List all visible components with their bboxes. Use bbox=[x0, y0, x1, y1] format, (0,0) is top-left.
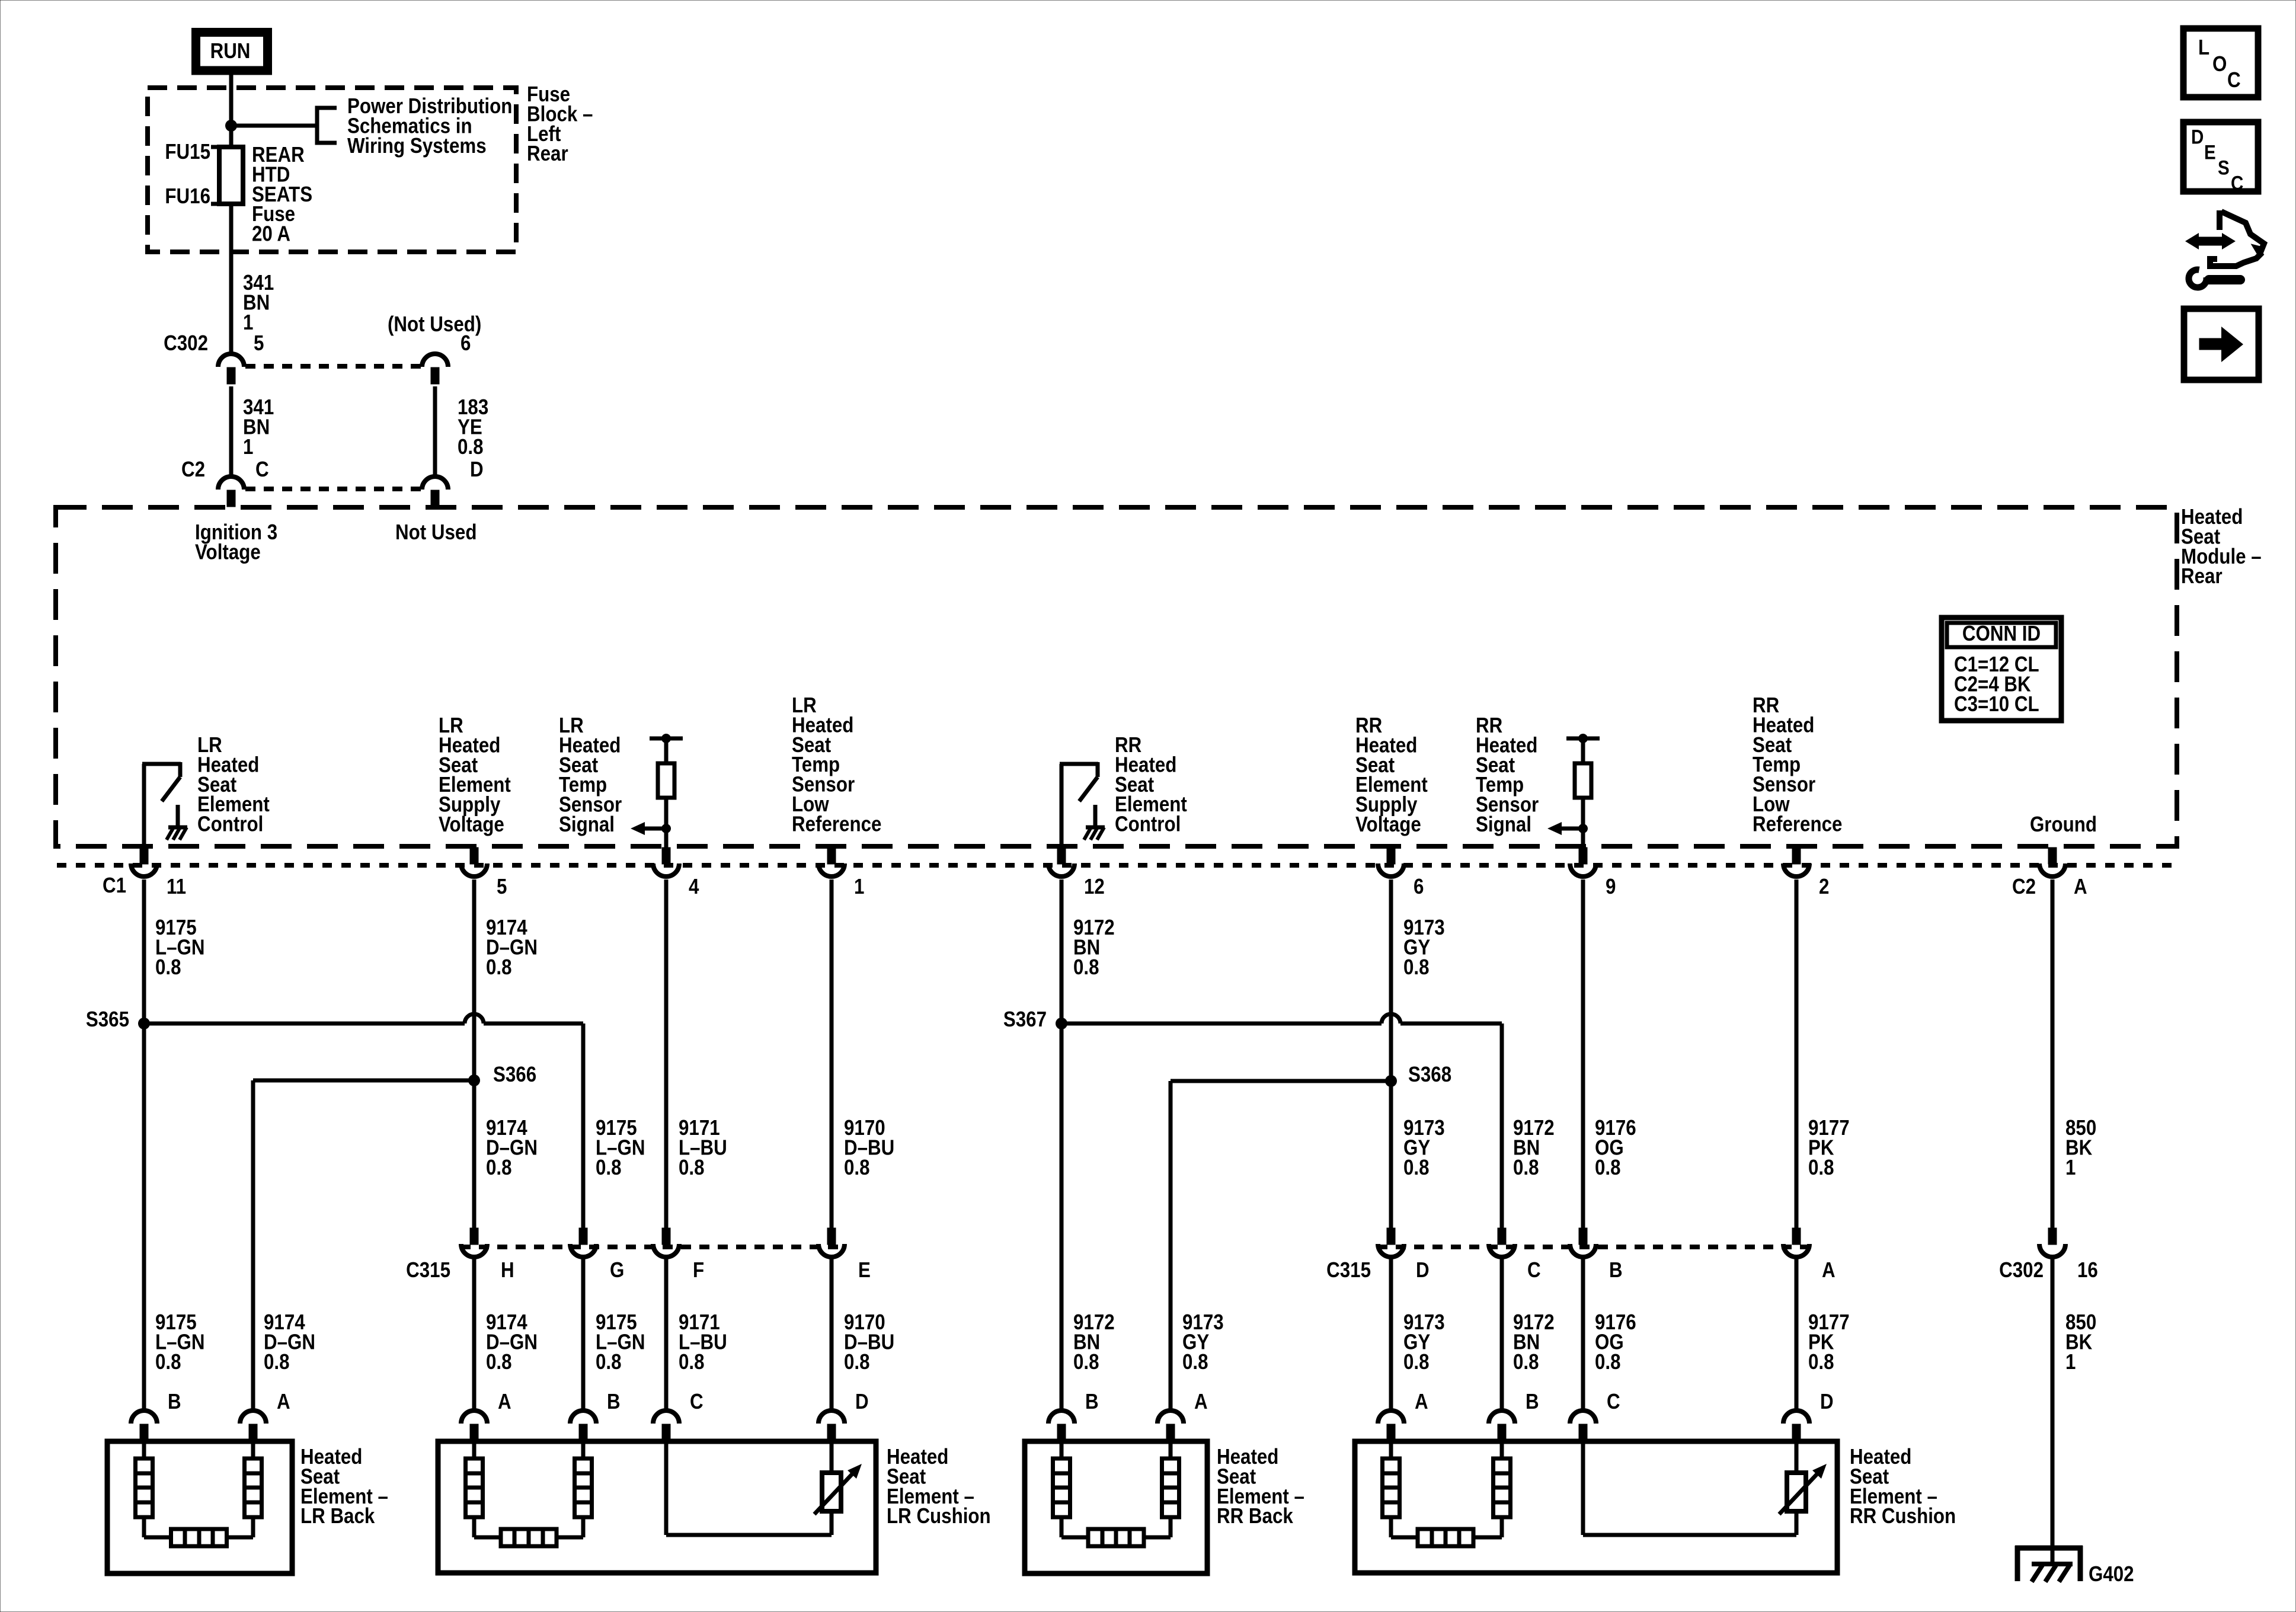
value label 9174 D-GN 0.8 (LR Back A) bbox=[264, 1310, 315, 1374]
label Heated Seat Element - RR Back bbox=[1217, 1445, 1304, 1528]
element pin letter B at x=283 bbox=[168, 1390, 181, 1414]
label C302 (ground run) bbox=[1999, 1258, 2044, 1282]
connector C315 pin E bbox=[818, 1228, 845, 1257]
svg-text:Rear: Rear bbox=[2181, 564, 2223, 588]
value label 9172 BN 0.8 (S367 branch) bbox=[1513, 1116, 1555, 1179]
svg-text:B: B bbox=[1609, 1258, 1623, 1282]
module connector C1/C2 pin 2 bbox=[1783, 847, 1809, 877]
pin letter F bbox=[693, 1258, 704, 1282]
svg-text:0.8: 0.8 bbox=[596, 1350, 622, 1374]
element pin letter A at x=467 bbox=[277, 1390, 290, 1414]
connector C2 dashed tie line bbox=[245, 487, 421, 491]
wire to Power Distribution reference bracket bbox=[231, 124, 317, 128]
svg-text:CONN ID: CONN ID bbox=[1962, 622, 2041, 646]
label G402 bbox=[2089, 1562, 2134, 1587]
value label 9172 BN 0.8 (RR Back B) bbox=[1073, 1310, 1115, 1374]
svg-text:C315: C315 bbox=[1326, 1258, 1371, 1282]
element connector pin at x=2347 bbox=[1378, 1410, 1404, 1441]
connector C315 pin B bbox=[1570, 1228, 1596, 1257]
svg-text:O: O bbox=[2212, 52, 2227, 76]
wire hop over pin 6 wire bbox=[1382, 1014, 1400, 1024]
svg-text:C3=10 CL: C3=10 CL bbox=[1954, 692, 2039, 717]
value label 9171 L-BU 0.8 (LR Cushion C) bbox=[679, 1310, 727, 1374]
label Fuse Block - Left Rear bbox=[527, 82, 593, 166]
svg-text:1: 1 bbox=[243, 311, 253, 335]
svg-text:B: B bbox=[1085, 1390, 1099, 1414]
svg-text:B: B bbox=[607, 1390, 621, 1414]
switch RR heated seat element control (inside module) bbox=[1060, 762, 1105, 846]
wire from C315 down at x=984 bbox=[581, 1258, 586, 1410]
value label 9170 D-BU 0.8 bbox=[844, 1116, 894, 1179]
value label 9175 L-GN 0.8 (pin 11) bbox=[155, 916, 205, 979]
element pin letter B at x=2574 bbox=[1526, 1390, 1539, 1414]
temp sensor pull-up resistor RR (inside module) bbox=[1547, 734, 1600, 847]
value label 9172 BN 0.8 (pin 12) bbox=[1073, 916, 1115, 979]
svg-text:G402: G402 bbox=[2089, 1562, 2134, 1587]
svg-text:C: C bbox=[690, 1390, 703, 1414]
svg-text:2: 2 bbox=[1819, 875, 1829, 899]
svg-text:Control: Control bbox=[197, 813, 263, 837]
pin number 12 bbox=[1084, 875, 1105, 899]
value label 9173 GY 0.8 (pin 6) bbox=[1403, 916, 1445, 979]
pin letter C bbox=[1527, 1258, 1541, 1282]
label C2 bbox=[181, 458, 205, 482]
label C315 (right) bbox=[1326, 1258, 1371, 1282]
svg-text:0.8: 0.8 bbox=[458, 435, 484, 459]
svg-text:S365: S365 bbox=[86, 1007, 129, 1032]
label C302 bbox=[164, 331, 208, 356]
svg-text:Rear: Rear bbox=[527, 142, 568, 166]
element pin letter B at x=1831 bbox=[1085, 1390, 1099, 1414]
label REAR HTD SEATS Fuse 20 A bbox=[252, 143, 312, 246]
value label 341 BN 1 (circuit below C302) bbox=[243, 395, 274, 459]
module box Heated Seat Module - Rear (dashed) bbox=[56, 507, 2177, 846]
svg-text:A: A bbox=[2074, 875, 2087, 899]
svg-text:FU16: FU16 bbox=[165, 184, 210, 209]
value label 9177 PK 0.8 bbox=[1808, 1116, 1850, 1179]
value label 9173 GY 0.8 (RR Cushion A) bbox=[1403, 1310, 1445, 1374]
label Not Used bbox=[395, 520, 477, 545]
icon DESC box bbox=[2183, 122, 2258, 194]
svg-text:B: B bbox=[1526, 1390, 1539, 1414]
element connector pin at x=800 bbox=[461, 1410, 487, 1441]
svg-text:1: 1 bbox=[2065, 1350, 2076, 1374]
connector C315 pin D bbox=[1378, 1228, 1404, 1257]
svg-text:RR Back: RR Back bbox=[1217, 1504, 1293, 1528]
label LR Heated Seat Element Control bbox=[197, 733, 270, 836]
label S366 bbox=[493, 1063, 536, 1087]
value label 9175 L-GN 0.8 (LR Back B) bbox=[155, 1310, 205, 1374]
svg-text:5: 5 bbox=[497, 875, 507, 899]
pin number 11 bbox=[167, 875, 186, 899]
svg-text:1: 1 bbox=[243, 435, 253, 459]
svg-text:S: S bbox=[2218, 156, 2230, 179]
svg-text:Reference: Reference bbox=[792, 812, 881, 836]
pin letter C at C2 bbox=[255, 458, 269, 482]
label RR Heated Seat Element Control bbox=[1115, 733, 1187, 836]
wire from C315 down at x=1403 bbox=[830, 1258, 834, 1410]
value label 9171 L-BU 0.8 bbox=[679, 1116, 727, 1179]
power node RUN (ignition switch position) bbox=[196, 33, 268, 71]
value label 850 BK 1 (above G402) bbox=[2065, 1310, 2096, 1374]
value label 9173 GY 0.8 (below S368) bbox=[1403, 1116, 1445, 1179]
switch LR heated seat element control (inside module) bbox=[142, 762, 187, 846]
svg-text:C: C bbox=[2231, 172, 2243, 194]
svg-text:C: C bbox=[1527, 1258, 1541, 1282]
label Ground (module pin) bbox=[2030, 813, 2097, 837]
svg-text:RR Cushion: RR Cushion bbox=[1850, 1504, 1956, 1528]
connector C302 dashed tie line bbox=[245, 364, 421, 369]
svg-text:0.8: 0.8 bbox=[844, 1156, 870, 1180]
wire 9176 OG pin9 to C315 B bbox=[1581, 879, 1585, 1229]
wire 9175 L-GN pin11 to S365 to LR Back pin B bbox=[142, 879, 146, 1410]
svg-text:C302: C302 bbox=[1999, 1258, 2044, 1282]
value label 341 BN 1 (circuit above C302) bbox=[243, 271, 274, 334]
connector C315 right dashed tie line bbox=[1377, 1245, 1810, 1249]
svg-text:0.8: 0.8 bbox=[1513, 1156, 1539, 1180]
svg-text:LR Cushion: LR Cushion bbox=[887, 1504, 991, 1528]
element connector pin at x=2671 bbox=[1570, 1410, 1596, 1441]
label Heated Seat Element - LR Back bbox=[300, 1445, 388, 1528]
junction node on fuse feed wire bbox=[225, 120, 237, 132]
wire from C315 down at x=2347 bbox=[1389, 1258, 1393, 1410]
label S368 bbox=[1408, 1063, 1451, 1087]
value label 9176 OG 0.8 (RR Cushion C) bbox=[1595, 1310, 1636, 1374]
module connector C1/C2 pin 4 bbox=[653, 847, 679, 877]
label Ignition 3 Voltage bbox=[195, 520, 277, 564]
svg-text:0.8: 0.8 bbox=[1073, 1350, 1099, 1374]
junction S366 bbox=[468, 1074, 480, 1086]
pin letter A bbox=[2074, 875, 2087, 899]
element pin letter D at x=1443 bbox=[855, 1390, 869, 1414]
svg-text:Control: Control bbox=[1115, 813, 1181, 837]
svg-text:A: A bbox=[1415, 1390, 1428, 1414]
connector C2 pin C bbox=[218, 476, 244, 507]
element connector pin at x=1791 bbox=[1048, 1410, 1075, 1441]
pin number 6 bbox=[1414, 875, 1424, 899]
wire from C315 down at x=2534 bbox=[1500, 1258, 1504, 1410]
connector C302 pin 16 bbox=[2039, 1228, 2065, 1257]
wire branch S368 to RR Back pin A bbox=[1171, 1081, 1391, 1410]
module connector C1/C2 pin 11 bbox=[131, 847, 157, 877]
ground G402 symbol bbox=[2015, 1546, 2083, 1582]
pin letter E bbox=[858, 1258, 871, 1282]
module connector C1/C2 pin A bbox=[2039, 847, 2065, 877]
element connector pin at x=1124 bbox=[653, 1410, 679, 1441]
svg-text:6: 6 bbox=[461, 331, 471, 356]
label LR Heated Seat Temp Sensor Signal bbox=[559, 714, 622, 837]
svg-text:16: 16 bbox=[2077, 1258, 2098, 1282]
svg-text:H: H bbox=[501, 1258, 514, 1282]
element connector pin at x=1403 bbox=[818, 1410, 845, 1441]
connector C315 pin H bbox=[461, 1228, 487, 1257]
svg-text:4: 4 bbox=[689, 875, 699, 899]
svg-text:0.8: 0.8 bbox=[679, 1156, 705, 1180]
svg-text:Wiring Systems: Wiring Systems bbox=[347, 134, 487, 158]
svg-text:C: C bbox=[255, 458, 269, 482]
pin number 2 bbox=[1819, 875, 1829, 899]
connector C315 pin F bbox=[653, 1228, 679, 1257]
svg-text:C: C bbox=[1607, 1390, 1620, 1414]
connector C315 left dashed tie line bbox=[461, 1245, 845, 1249]
connector row C1 dashed tie line bbox=[57, 863, 2175, 868]
connector C315 pin G bbox=[570, 1228, 596, 1257]
svg-text:20 A: 20 A bbox=[252, 222, 290, 247]
wire branch S367 to C315 C (with hop over pin6 wire) bbox=[1061, 1024, 1502, 1229]
svg-text:0.8: 0.8 bbox=[1513, 1350, 1539, 1374]
svg-text:0.8: 0.8 bbox=[486, 1156, 512, 1180]
pin letter D bbox=[1416, 1258, 1430, 1282]
svg-text:D: D bbox=[1416, 1258, 1430, 1282]
element pin letter C at x=2711 bbox=[1607, 1390, 1620, 1414]
element connector pin at x=427 bbox=[240, 1410, 266, 1441]
svg-text:RUN: RUN bbox=[210, 39, 251, 63]
svg-text:LR Back: LR Back bbox=[300, 1504, 375, 1528]
connector C315 pin C bbox=[1489, 1228, 1515, 1257]
box Heated Seat Element - RR Cushion bbox=[1355, 1441, 1837, 1573]
element connector pin at x=3031 bbox=[1783, 1410, 1809, 1441]
LR Cushion temp sensor loop wire bbox=[666, 1444, 832, 1535]
connector C2 pin D bbox=[422, 476, 448, 507]
label C1 bbox=[103, 874, 126, 898]
junction S365 bbox=[138, 1018, 150, 1029]
value label 9174 D-GN 0.8 (pin 5) bbox=[486, 916, 538, 979]
pin letter D at C2 bbox=[470, 458, 484, 482]
thermistor RR cushion temp sensor bbox=[1779, 1464, 1827, 1514]
svg-text:1: 1 bbox=[854, 875, 864, 899]
element connector pin at x=984 bbox=[570, 1410, 596, 1441]
box Heated Seat Element - RR Back bbox=[1025, 1441, 1207, 1573]
pin number 5 bbox=[497, 875, 507, 899]
LR Cushion heater element circuit bbox=[466, 1444, 592, 1546]
svg-text:D: D bbox=[470, 458, 484, 482]
wire from C315 down at x=800 bbox=[472, 1258, 477, 1410]
RR Back heater element circuit bbox=[1053, 1444, 1179, 1546]
wire branch S365 to C315 G (with hop over pin5 wire) bbox=[144, 1024, 583, 1229]
svg-text:0.8: 0.8 bbox=[1182, 1350, 1208, 1374]
element connector pin at x=2534 bbox=[1489, 1410, 1515, 1441]
wire 9170 D-BU pin1 to C315 E bbox=[830, 879, 834, 1229]
svg-text:0.8: 0.8 bbox=[679, 1350, 705, 1374]
svg-text:FU15: FU15 bbox=[165, 140, 210, 164]
label S367 bbox=[1003, 1007, 1047, 1032]
LR Back heater element circuit bbox=[136, 1444, 262, 1546]
module connector C1/C2 pin 1 bbox=[818, 847, 845, 877]
svg-text:D: D bbox=[2191, 126, 2204, 148]
RR Cushion heater element circuit bbox=[1383, 1444, 1511, 1546]
wire 9172 BN pin12 to S367 to RR Back pin B bbox=[1060, 879, 1064, 1410]
svg-text:E: E bbox=[2204, 141, 2216, 164]
svg-text:0.8: 0.8 bbox=[1595, 1350, 1621, 1374]
value label 850 BK 1 (above C302-16) bbox=[2065, 1116, 2096, 1179]
svg-text:G: G bbox=[610, 1258, 624, 1282]
module connector C1/C2 pin 6 bbox=[1378, 847, 1404, 877]
wire 9171 L-BU pin4 to C315 F bbox=[664, 879, 669, 1229]
svg-text:0.8: 0.8 bbox=[155, 955, 181, 980]
wire 9177 PK pin2 to C315 A bbox=[1795, 879, 1799, 1229]
pin number 9 bbox=[1606, 875, 1616, 899]
svg-text:A: A bbox=[1194, 1390, 1208, 1414]
svg-text:0.8: 0.8 bbox=[1073, 955, 1099, 980]
wire 183 YE from C302-6 to C2 pin D bbox=[433, 386, 437, 476]
reference bracket Power Distribution bbox=[317, 108, 337, 143]
label S365 bbox=[86, 1007, 129, 1032]
thermistor LR cushion temp sensor bbox=[814, 1464, 862, 1514]
svg-text:C2: C2 bbox=[2012, 875, 2036, 899]
module connector C1/C2 pin 9 bbox=[1570, 847, 1596, 877]
box Heated Seat Element - LR Back bbox=[107, 1441, 292, 1573]
svg-text:5: 5 bbox=[254, 331, 264, 356]
label RR Heated Seat Temp Sensor Signal bbox=[1476, 714, 1539, 837]
wire from C315 down at x=2671 bbox=[1581, 1258, 1585, 1410]
svg-text:0.8: 0.8 bbox=[486, 1350, 512, 1374]
svg-text:D: D bbox=[855, 1390, 869, 1414]
pin number 6 at C302 bbox=[461, 331, 471, 356]
pin number 1 bbox=[854, 875, 864, 899]
svg-text:Voltage: Voltage bbox=[439, 813, 504, 837]
value label 9174 D-GN 0.8 (LR Cushion A) bbox=[486, 1310, 538, 1374]
svg-text:Not Used: Not Used bbox=[395, 520, 477, 545]
element pin letter A at x=2015 bbox=[1194, 1390, 1208, 1414]
module connector C1/C2 pin 12 bbox=[1048, 847, 1075, 877]
icon LOC box bbox=[2183, 28, 2258, 97]
value label 183 YE 0.8 bbox=[458, 395, 488, 459]
value label 9170 D-BU 0.8 (LR Cushion D) bbox=[844, 1310, 894, 1374]
svg-text:0.8: 0.8 bbox=[264, 1350, 290, 1374]
label Heated Seat Element - RR Cushion bbox=[1850, 1445, 1956, 1528]
svg-text:C1: C1 bbox=[103, 874, 126, 898]
element pin letter D at x=3071 bbox=[1820, 1390, 1834, 1414]
svg-text:6: 6 bbox=[1414, 875, 1424, 899]
svg-text:A: A bbox=[277, 1390, 290, 1414]
pin number 5 at C302 bbox=[254, 331, 264, 356]
module connector C1/C2 pin 5 bbox=[461, 847, 487, 877]
svg-text:0.8: 0.8 bbox=[1403, 1350, 1430, 1374]
svg-text:0.8: 0.8 bbox=[844, 1350, 870, 1374]
svg-text:A: A bbox=[1822, 1258, 1835, 1282]
wire from RUN to fuse FU15/FU16 bbox=[229, 70, 234, 148]
box Heated Seat Element - LR Cushion bbox=[438, 1441, 876, 1573]
svg-text:D: D bbox=[1820, 1390, 1834, 1414]
wire 9173 GY pin6 to S368 to C315 D bbox=[1389, 879, 1393, 1229]
value label 9177 PK 0.8 (RR Cushion D) bbox=[1808, 1310, 1850, 1374]
svg-text:Voltage: Voltage bbox=[1355, 813, 1421, 837]
label RR Heated Seat Temp Sensor Low Reference bbox=[1753, 693, 1842, 836]
element pin letter B at x=1024 bbox=[607, 1390, 621, 1414]
label FU15 bbox=[165, 140, 210, 164]
svg-text:0.8: 0.8 bbox=[596, 1156, 622, 1180]
svg-text:9: 9 bbox=[1606, 875, 1616, 899]
svg-text:C315: C315 bbox=[406, 1258, 450, 1282]
element connector pin at x=243 bbox=[131, 1410, 157, 1441]
connector C302 pin 5 bbox=[218, 354, 244, 384]
svg-text:S366: S366 bbox=[493, 1063, 536, 1087]
value label 9176 OG 0.8 bbox=[1595, 1116, 1636, 1179]
svg-text:S367: S367 bbox=[1003, 1007, 1047, 1032]
svg-text:0.8: 0.8 bbox=[1403, 955, 1430, 980]
svg-text:E: E bbox=[858, 1258, 871, 1282]
svg-text:0.8: 0.8 bbox=[1403, 1156, 1430, 1180]
label Heated Seat Module - Rear bbox=[2181, 505, 2262, 588]
element pin letter A at x=840 bbox=[498, 1390, 511, 1414]
pin letter H bbox=[501, 1258, 514, 1282]
fuse block dashed outline (Fuse Block - Left Rear) bbox=[148, 88, 516, 252]
label RR Heated Seat Element Supply Voltage bbox=[1355, 714, 1428, 837]
svg-text:C2: C2 bbox=[181, 458, 205, 482]
value label 9175 L-GN 0.8 (LR Cushion B) bbox=[596, 1310, 645, 1374]
icon connector-face with double arrow and wrench bbox=[2185, 210, 2264, 287]
junction S368 bbox=[1385, 1075, 1397, 1087]
wire 850 BK from C302-16 to ground G402 bbox=[2051, 1258, 2055, 1565]
element pin letter A at x=2387 bbox=[1415, 1390, 1428, 1414]
svg-text:B: B bbox=[168, 1390, 181, 1414]
svg-text:Reference: Reference bbox=[1753, 812, 1842, 836]
junction S367 bbox=[1056, 1018, 1067, 1029]
svg-text:0.8: 0.8 bbox=[1808, 1156, 1834, 1180]
temp sensor pull-up resistor LR (inside module) bbox=[631, 734, 683, 847]
svg-text:0.8: 0.8 bbox=[155, 1350, 181, 1374]
svg-text:1: 1 bbox=[2065, 1156, 2076, 1180]
wire branch S366 to LR Back pin A bbox=[253, 1080, 474, 1410]
label FU16 bbox=[165, 184, 210, 209]
fuse FU15/FU16 REAR HTD SEATS 20 A bbox=[211, 147, 243, 204]
wire 9174 D-GN pin5 to S366 to C315 H bbox=[472, 879, 477, 1229]
label (Not Used) bbox=[388, 312, 481, 337]
element pin letter C at x=1164 bbox=[690, 1390, 703, 1414]
wire 850 BK ground pin A to C302 pin 16 bbox=[2051, 879, 2055, 1229]
pin number 16 bbox=[2077, 1258, 2098, 1282]
svg-text:12: 12 bbox=[1084, 875, 1105, 899]
svg-text:0.8: 0.8 bbox=[1808, 1350, 1834, 1374]
pin letter G bbox=[610, 1258, 624, 1282]
pin letter B bbox=[1609, 1258, 1623, 1282]
value label 9175 L-GN 0.8 (S365 branch) bbox=[596, 1116, 645, 1179]
label LR Heated Seat Element Supply Voltage bbox=[439, 714, 511, 837]
svg-text:L: L bbox=[2198, 36, 2209, 60]
value label 9173 GY 0.8 (RR Back A) bbox=[1182, 1310, 1224, 1374]
wire from C315 down at x=1124 bbox=[664, 1258, 669, 1410]
value label 9174 D-GN 0.8 (below S366) bbox=[486, 1116, 538, 1179]
svg-text:C302: C302 bbox=[164, 331, 208, 356]
svg-text:Signal: Signal bbox=[559, 813, 615, 837]
RR Cushion temp sensor loop wire bbox=[1583, 1444, 1796, 1535]
element connector pin at x=1975 bbox=[1157, 1410, 1184, 1441]
svg-text:0.8: 0.8 bbox=[1595, 1156, 1621, 1180]
label Power Distribution Schematics in Wiring Systems bbox=[347, 94, 512, 158]
pin number 4 bbox=[689, 875, 699, 899]
label Heated Seat Element - LR Cushion bbox=[887, 1445, 991, 1528]
svg-text:A: A bbox=[498, 1390, 511, 1414]
pin letter A (C315) bbox=[1822, 1258, 1835, 1282]
wire 341 BN from fuse to C302 pin 5 bbox=[229, 204, 234, 353]
svg-text:Signal: Signal bbox=[1476, 813, 1531, 837]
label LR Heated Seat Temp Sensor Low Reference bbox=[792, 693, 881, 836]
svg-text:Voltage: Voltage bbox=[195, 540, 261, 564]
label C2 (module ground connector) bbox=[2012, 875, 2036, 899]
connector C315 pin A bbox=[1783, 1228, 1809, 1257]
icon forward arrow box bbox=[2184, 309, 2259, 380]
svg-text:11: 11 bbox=[167, 875, 186, 899]
svg-text:0.8: 0.8 bbox=[486, 955, 512, 980]
wire hop over pin 5 wire bbox=[465, 1014, 484, 1024]
value label 9172 BN 0.8 (RR Cushion B) bbox=[1513, 1310, 1555, 1374]
wire from C315 down at x=3031 bbox=[1795, 1258, 1799, 1410]
svg-text:S368: S368 bbox=[1408, 1063, 1451, 1087]
wire 341 BN from C302-5 to C2 pin C bbox=[229, 386, 234, 476]
svg-text:F: F bbox=[693, 1258, 704, 1282]
label C315 (left) bbox=[406, 1258, 450, 1282]
CONN ID table bbox=[1942, 618, 2061, 721]
